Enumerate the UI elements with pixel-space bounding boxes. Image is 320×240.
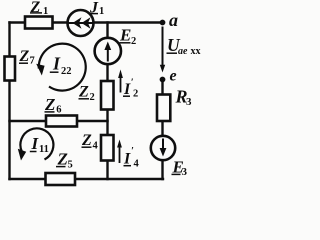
svg-text:11: 11	[39, 144, 49, 155]
svg-text:Z: Z	[78, 84, 89, 101]
svg-text:e: e	[170, 68, 177, 85]
svg-text:E: E	[119, 26, 131, 45]
svg-text:2: 2	[133, 89, 138, 100]
svg-text:1: 1	[99, 6, 104, 17]
svg-text:4: 4	[93, 141, 99, 152]
svg-text:22: 22	[61, 66, 72, 77]
svg-text:xx: xx	[191, 46, 201, 57]
svg-text:3: 3	[186, 96, 192, 108]
svg-text:2: 2	[90, 92, 95, 103]
svg-text:Z: Z	[57, 150, 68, 169]
svg-text:I: I	[52, 54, 61, 74]
svg-text:6: 6	[56, 105, 61, 116]
svg-text:3: 3	[182, 166, 188, 178]
svg-text:4: 4	[134, 159, 140, 170]
svg-text:ae: ae	[178, 46, 188, 57]
svg-text:′: ′	[131, 146, 134, 157]
svg-text:′: ′	[131, 78, 134, 89]
svg-text:2: 2	[131, 36, 136, 47]
svg-text:a: a	[169, 10, 178, 30]
svg-text:7: 7	[30, 56, 35, 67]
svg-text:1: 1	[43, 6, 48, 17]
svg-text:5: 5	[68, 160, 73, 171]
